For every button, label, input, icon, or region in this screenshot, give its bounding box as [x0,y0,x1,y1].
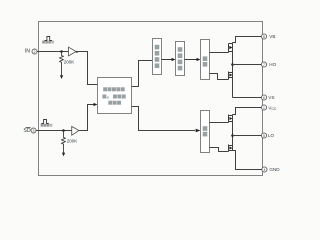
svg-text:LO: LO [268,133,275,138]
node junction dot at IN resistor [60,50,63,53]
resistor R1 200K (IN pulldown) [60,52,64,76]
wire driver U6 lower output to Q2 gate [210,74,229,80]
svg-text:7: 7 [263,63,265,67]
svg-text:200K: 200K [64,59,75,64]
ground arrow (IN pulldown) [60,75,63,79]
buffer U1 (IN input buffer) [69,47,77,56]
svg-text:SD: SD [23,128,30,134]
label 逻辑输入 (logic input, SD) drawn as glyph blobs [41,124,53,127]
pulse waveform symbol (logic input, SD) [41,120,48,124]
wire U1 output to logic block [76,52,98,85]
svg-text:1: 1 [263,106,265,110]
pin 3 circle [31,128,36,133]
svg-text:VS: VS [268,95,274,100]
svg-text:VCC: VCC [268,105,277,111]
svg-text:GND: GND [269,167,280,172]
buffer U2 (SD input buffer) [72,126,79,135]
pin 4 circle [262,167,267,172]
transistor Q4 (low-side lower MOSFET) [229,145,233,152]
transistor Q1 (high-side upper MOSFET) [229,44,233,53]
low-side driver block U7 [201,111,210,153]
wire Q3 drain to Vcc pin 1 [233,108,262,115]
wire U2 output up to logic block with arrowhead [79,105,95,131]
wire Q4 source to GND pin 4 [233,151,263,170]
pin 5 circle [261,133,266,138]
wire VS to pin 6 [233,97,262,99]
svg-text:5: 5 [263,134,265,138]
pin 2 circle [32,49,37,54]
svg-text:8: 8 [263,35,265,39]
wire low-side rail (Q3/Q4 channel) [232,115,234,151]
IC outline box [39,22,263,176]
svg-text:6: 6 [263,96,265,100]
arrowhead into logic block (SD path) [94,103,98,106]
transistor Q3 (low-side upper MOSFET) [229,115,233,123]
pin 1 circle [261,105,266,110]
svg-text:VB: VB [269,34,275,39]
buffer filter block U5 [176,42,185,76]
wire logic block lower output to low-side driver with arrowhead [132,107,201,133]
node HO junction dot [231,63,234,66]
wire logic block upper output to level-shift block [132,61,153,87]
logic control / dead-time block U3 [98,78,132,114]
label 逻辑输入 (logic input, IN) drawn as glyph blobs [42,41,54,44]
ground arrow (SD pulldown) [62,153,65,157]
svg-text:IN: IN [25,49,30,55]
wire high-side rail (Q1/Q2 channel) [232,43,234,98]
wire + arrowhead level-shift to filter block [162,58,176,61]
text 驱动 drawn as glyph blobs (vertical) [203,56,208,66]
wire + arrowhead filter to high-side driver [185,58,201,61]
text 缓冲滤波 drawn as glyph blobs (vertical) [178,47,183,70]
svg-text:3: 3 [33,129,35,133]
high-side driver block U6 [201,40,210,80]
node LO junction dot [231,134,234,137]
svg-text:2: 2 [34,50,36,54]
transistor Q2 (high-side lower MOSFET) [229,72,233,80]
pin 6 circle [261,95,266,100]
wire HO to pin 7 [233,64,262,66]
wire LO to pin 5 [233,135,262,137]
resistor R2 200K (SD pulldown) [62,131,66,153]
text 逻辑控制电路、死区时间电路 drawn as glyph blobs (3 rows) [102,87,125,104]
pin 3 SD label with overline [23,128,30,135]
svg-text:4: 4 [263,168,265,172]
wire driver U6 upper output to Q1 gate [210,52,229,54]
svg-text:HO: HO [269,62,276,67]
node dot at U1 output [76,51,78,53]
pin 7 circle [261,62,266,67]
node junction dot at SD resistor [62,129,65,132]
pin 8 circle [261,34,266,39]
svg-text:200K: 200K [67,139,78,144]
text 电平位移 drawn as glyph blobs (vertical) [155,45,160,68]
level shift block U4 [153,39,162,75]
wire Q1 drain to VB rail [233,37,262,43]
wire driver U7 lower output to Q4 gate [210,148,229,152]
wire pin2 to buffer input [37,51,69,53]
wire driver U7 upper output to Q3 gate [210,122,229,124]
wire pin3 to buffer input [36,130,72,132]
text 驱动 drawn as glyph blobs (vertical) [203,126,208,136]
pulse waveform symbol (logic input, IN) [45,37,53,41]
